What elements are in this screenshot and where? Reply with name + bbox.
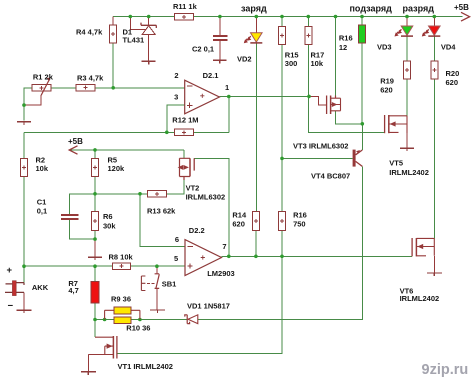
wire R7 top lead — [94, 266, 96, 281]
svg-text:VD1 1N5817: VD1 1N5817 — [187, 302, 230, 311]
wire R13 right lead up to VT2 drain — [167, 177, 184, 194]
svg-text:R12 1M: R12 1M — [172, 116, 198, 125]
junction pin3/R12 rail — [165, 131, 169, 135]
svg-text:R8 10k: R8 10k — [109, 253, 134, 262]
resistor R1 2k (trimmer) — [32, 85, 51, 91]
svg-text:R19: R19 — [380, 77, 394, 86]
wire battery positive row — [24, 265, 185, 267]
svg-text:R6: R6 — [103, 212, 113, 221]
wire VD3 anode lead — [406, 17, 408, 27]
junction rail/D1 ref — [129, 15, 133, 19]
junction +5V/R5 — [93, 148, 97, 152]
junction rail/R16 — [360, 15, 364, 19]
capacitor C2 0,1 — [213, 36, 227, 40]
wire R1 left lead down to wiper node — [24, 88, 32, 105]
node divider R5/R6/C1 — [93, 192, 97, 196]
svg-text:SB1: SB1 — [162, 279, 177, 288]
wire VD4 cathode to R20 — [433, 36, 435, 61]
transistor VT1 IRLML2402 (n-MOSFET, mirrored) — [88, 336, 117, 359]
svg-text:R10 36: R10 36 — [126, 324, 150, 333]
wire VD1 to VT4 collector — [198, 166, 362, 319]
resistor R13 62k — [148, 191, 167, 197]
junction R9-R10 left — [103, 318, 107, 322]
svg-text:R13 62k: R13 62k — [147, 207, 176, 216]
svg-text:VT5: VT5 — [389, 159, 403, 168]
transistor VT2 IRLML6302 (p-MOSFET) — [178, 158, 195, 180]
node R4/R3/pin2 — [111, 86, 115, 90]
svg-text:2: 2 — [174, 71, 178, 80]
wire SB1 bottom lead to ground — [156, 288, 158, 310]
svg-text:IRLML2402: IRLML2402 — [389, 168, 429, 177]
svg-text:R1 2k: R1 2k — [33, 72, 54, 81]
wire R20 bottom long lead to VT6 drain — [433, 80, 435, 239]
transistor VT3 IRLML6302 (p-MOSFET) — [327, 96, 341, 115]
+5V rail arrowhead — [461, 12, 470, 21]
junction R9-R10 right — [138, 318, 142, 322]
wire R7 bottom lead — [94, 303, 96, 320]
zener/TL431 D1 — [141, 23, 156, 35]
resistor R9 36 (yellow) — [114, 307, 131, 314]
junction SB1 — [155, 264, 159, 268]
svg-text:AKK: AKK — [32, 283, 49, 292]
wire R16(12) top lead — [361, 17, 363, 26]
wire VT4 base wire — [282, 157, 353, 159]
wire battery + lead — [23, 266, 25, 282]
wire R4 bottom lead to node R3/R4 — [112, 43, 114, 88]
junction VT3 drain/R16/VT4 emitter — [361, 122, 365, 126]
wire R6/C1 node to ground — [94, 239, 96, 257]
junction rail/R15 — [280, 15, 284, 19]
+5V arrow (left-pointing) — [69, 146, 77, 154]
svg-text:IRLML2402: IRLML2402 — [400, 294, 440, 303]
wire D1 anode lead to ground — [148, 34, 150, 61]
svg-text:заряд: заряд — [241, 3, 267, 13]
junction rail/VD4 — [433, 15, 437, 19]
resistor R10 36 (yellow) — [114, 317, 131, 324]
junction rail/D1 cathode — [147, 15, 151, 19]
wire VT3 drain to junction — [336, 111, 363, 124]
wire D1 reference loop from rail — [130, 17, 146, 30]
junction R16(750)/output wire — [280, 254, 284, 258]
capacitor C1 0,1 — [61, 215, 79, 219]
svg-text:1: 1 — [225, 83, 229, 92]
resistor R6 30k — [92, 212, 99, 231]
wire battery - lead to ground — [23, 292, 25, 310]
resistor R12 1M — [175, 129, 194, 135]
diode VD1 1N5817 (Schottky) — [185, 315, 198, 324]
svg-text:R16: R16 — [339, 34, 353, 43]
svg-text:300: 300 — [285, 59, 298, 68]
ground R1 — [17, 122, 31, 125]
ground C1/R6 — [88, 257, 102, 260]
svg-text:R11 1k: R11 1k — [173, 2, 198, 11]
svg-text:+: + — [7, 265, 13, 276]
wire comparator input row y=88 (R1-R3-D2.1 pin2) — [51, 87, 185, 89]
resistor R19 620 — [404, 61, 411, 79]
svg-text:12: 12 — [339, 43, 347, 52]
resistor R4 4,7k — [110, 25, 117, 43]
wire R6 bottom lead — [94, 231, 96, 240]
wire comparator outputs net down to VT5 gate — [308, 96, 384, 132]
svg-text:D2.1: D2.1 — [203, 71, 219, 80]
wire bottom node row R9/R10 to VD1 — [95, 319, 187, 321]
svg-text:120k: 120k — [108, 164, 126, 173]
svg-text:C1: C1 — [37, 198, 47, 207]
svg-text:30k: 30k — [103, 222, 116, 231]
svg-text:10k: 10k — [36, 164, 49, 173]
wire divider node to R13 and C1 — [95, 193, 148, 195]
junction R14/output wire — [254, 254, 258, 258]
svg-text:D2.2: D2.2 — [189, 226, 205, 235]
wire R15 bottom down through node to R16(750) — [281, 44, 283, 211]
wire VT2 gate to D2.2 output — [194, 158, 229, 256]
svg-text:620: 620 — [380, 86, 393, 95]
op-amp D2.2 LM2903 — [185, 240, 222, 276]
svg-text:R14: R14 — [232, 211, 247, 220]
svg-text:VD2: VD2 — [237, 54, 252, 63]
svg-text:R20: R20 — [446, 69, 460, 78]
junction rail/R17 — [307, 15, 311, 19]
junction rail/VD2 — [254, 15, 258, 19]
svg-text:VT1 IRLML2402: VT1 IRLML2402 — [118, 362, 173, 371]
resistor R16 12 (green) — [359, 25, 366, 43]
transistor VT6 IRLML2402 (n-MOSFET) — [412, 238, 434, 256]
R9/R10 parallel brackets — [105, 310, 140, 319]
wire R4 top lead from rail — [112, 17, 114, 26]
transistor VT5 IRLML2402 (n-MOSFET) — [385, 115, 407, 133]
junction rail/VT3 source — [334, 15, 338, 19]
junction VT4 base/R15 line — [280, 157, 284, 161]
wire D2.1 pin3 from R12 rail — [167, 105, 185, 132]
resistor R3 4,7k — [76, 85, 95, 91]
wire VT4 emitter up to junction — [361, 124, 363, 150]
wire D2.1 output to junction — [219, 96, 309, 98]
svg-text:VD4: VD4 — [441, 43, 456, 52]
svg-text:VT4 BC807: VT4 BC807 — [311, 172, 350, 181]
wire R14 bottom lead — [255, 230, 257, 256]
svg-text:620: 620 — [446, 78, 459, 87]
junction output net/R17 — [307, 95, 311, 99]
wire R12 left rail to R2 — [24, 131, 175, 133]
junction D2.2 output/VT2 gate — [227, 254, 231, 258]
junction R7 top — [93, 264, 97, 268]
wire VD2 anode lead from rail — [255, 17, 257, 33]
wire D1 cathode lead — [148, 17, 150, 26]
wire R1 wiper to node — [24, 95, 41, 105]
resistor R7 4,7 (red) — [91, 282, 99, 304]
svg-text:750: 750 — [293, 220, 306, 229]
wire SB1 top lead — [156, 266, 158, 274]
wire R2 bottom long lead to battery node — [23, 176, 25, 266]
wire +5V arrow feed to R5 and VT2 — [70, 149, 184, 151]
svg-text:5: 5 — [174, 254, 178, 263]
svg-text:10k: 10k — [311, 59, 324, 68]
svg-text:TL431: TL431 — [123, 35, 145, 44]
svg-text:LM2903: LM2903 — [207, 269, 235, 278]
resistor R20 620 — [431, 61, 438, 79]
wire +5V top rail — [113, 16, 462, 18]
wire R16(750) bottom to D2.2 output wire and VT1 gate — [117, 231, 282, 354]
svg-text:3: 3 — [174, 92, 178, 101]
resistor R14 620 — [252, 211, 259, 230]
wire R5 top lead — [94, 150, 96, 158]
wire node A to D2.2 pin6 — [140, 194, 185, 247]
wire C2 top lead — [219, 17, 221, 37]
wire VD4 anode lead — [433, 17, 435, 27]
svg-text:разряд: разряд — [403, 4, 435, 14]
transistor VT4 BC807 (PNP) — [353, 150, 363, 167]
node C1/R6 ground — [93, 237, 97, 241]
junction D2.1 output — [227, 95, 231, 99]
wire R6 top lead — [94, 194, 96, 212]
trimmer R1 wiper arrow — [41, 77, 50, 95]
junction rail/VD3 — [405, 15, 409, 19]
ground battery — [17, 310, 32, 313]
svg-text:+5В: +5В — [454, 3, 469, 12]
wire R2 top lead — [23, 132, 25, 158]
LED VD4 (red) — [422, 26, 441, 37]
svg-text:VT3 IRLML6302: VT3 IRLML6302 — [293, 142, 348, 151]
svg-text:R4 4,7k: R4 4,7k — [76, 28, 103, 37]
svg-text:VD3: VD3 — [377, 43, 392, 52]
svg-text:R9 36: R9 36 — [111, 295, 131, 304]
wire C2 bottom lead to ground — [219, 41, 221, 61]
wire R17 top lead — [307, 17, 309, 27]
node R1 wiper — [22, 103, 26, 107]
svg-text:−: − — [8, 300, 14, 311]
wire R5 bottom lead to divider node — [94, 176, 96, 194]
svg-text:6: 6 — [175, 235, 179, 244]
wire D2.2 output to VT6 gate — [222, 255, 413, 257]
ground C2 — [213, 60, 227, 63]
battery AKK — [5, 281, 24, 296]
wire node to ground under R1 — [23, 105, 25, 120]
switch SB1 — [141, 274, 159, 291]
resistor R16 750 — [279, 211, 286, 230]
wire VT3 gate wire — [309, 96, 327, 104]
LED VD2 (yellow) — [244, 33, 262, 44]
resistor R8 10k — [112, 263, 130, 269]
wire R17 bottom lead down to comparator output net — [307, 44, 309, 96]
wire VT5 source to ground — [406, 133, 408, 148]
svg-text:9zip.ru: 9zip.ru — [422, 362, 469, 378]
svg-text:R3 4,7k: R3 4,7k — [77, 74, 104, 83]
wire VT2 source lead from +5V — [183, 150, 185, 158]
wire VT1 drain lead — [94, 320, 96, 338]
svg-text:VT2: VT2 — [186, 184, 200, 193]
op-amp D2.1 LM2903 — [185, 80, 220, 114]
wire VD3 cathode to R19 — [406, 36, 408, 61]
ground SB1 — [150, 310, 165, 313]
resistor R11 1k — [175, 14, 194, 20]
ground VT6 — [427, 273, 442, 276]
wire VT6 source to ground — [433, 256, 435, 273]
svg-text:4,7: 4,7 — [68, 286, 78, 295]
resistor R17 10k — [305, 26, 312, 44]
svg-text:R16: R16 — [293, 211, 307, 220]
svg-text:подзаряд: подзаряд — [350, 4, 393, 14]
svg-text:IRLML6302: IRLML6302 — [186, 193, 226, 202]
wire R15 top lead — [281, 17, 283, 27]
wire D2.1 output feedback drop to R12 — [228, 97, 230, 133]
node R7/R9/VT1 drain — [93, 318, 97, 322]
resistor R2 10k — [21, 158, 28, 176]
node battery+/R2 — [22, 264, 26, 268]
wire R12 right lead — [194, 131, 229, 133]
wire R19 bottom to VT5 drain — [406, 80, 408, 116]
LED VD3 (green) — [395, 26, 414, 37]
wire VT3 source lead from rail — [335, 17, 337, 99]
wire C1 bottom connection — [70, 220, 96, 239]
node A R13/pin6 — [138, 192, 142, 196]
ground VT1 — [81, 372, 96, 375]
ground D1 — [142, 61, 156, 64]
svg-text:620: 620 — [232, 220, 245, 229]
svg-text:C2 0,1: C2 0,1 — [192, 45, 214, 54]
svg-text:+5В: +5В — [68, 137, 83, 146]
resistor R15 300 — [279, 26, 286, 44]
resistor R5 120k — [92, 158, 99, 176]
wire VT1 source to ground — [87, 355, 89, 372]
svg-text:0,1: 0,1 — [37, 207, 47, 216]
junction rail/C2 — [218, 15, 222, 19]
wire C1 top connection — [70, 194, 96, 214]
wire R16(12) bottom lead to junction — [361, 43, 363, 124]
svg-text:7: 7 — [222, 242, 226, 251]
wire VD2 cathode down to R14 — [255, 43, 257, 211]
ground VT5 — [400, 148, 414, 151]
